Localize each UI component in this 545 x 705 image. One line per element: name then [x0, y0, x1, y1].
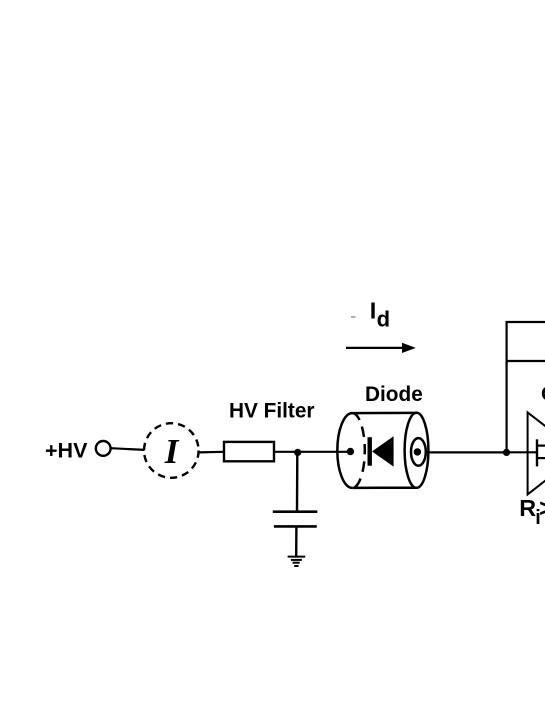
node junction filter/capacitor	[294, 449, 301, 456]
label Id	[370, 297, 390, 331]
svg-text:C: C	[541, 382, 545, 405]
svg-text:I: I	[164, 432, 180, 471]
svg-text:I: I	[370, 297, 377, 323]
terminal +HV input connector	[96, 441, 111, 456]
capacitor C (filter)	[273, 512, 318, 527]
op-amp U1 charge amplifier (partial)	[528, 412, 545, 494]
scan speck	[351, 316, 356, 318]
wire resistor to diode	[274, 451, 350, 453]
cathode connector dot	[414, 448, 421, 455]
label Ri	[519, 494, 545, 529]
wire terminal to meter	[111, 448, 145, 450]
wire diode to node A	[426, 451, 507, 453]
wire node A up to feedback network	[506, 322, 508, 453]
FET drain stub	[538, 445, 545, 447]
wire node A to FET gate	[507, 451, 537, 453]
ground	[288, 557, 306, 566]
wire capacitor to ground	[295, 526, 298, 556]
wire junction down to capacitor	[296, 452, 299, 511]
svg-text:R: R	[519, 495, 536, 521]
wire meter to resistor	[199, 451, 224, 454]
svg-text:d: d	[377, 306, 390, 331]
svg-text:>: >	[539, 494, 545, 522]
diode symbol D1	[368, 436, 394, 466]
node A diode/amplifier junction	[503, 449, 510, 456]
FET source stub	[538, 457, 545, 459]
current direction arrow	[346, 343, 416, 353]
current meter I (dashed circle)	[144, 423, 199, 478]
FET gate bar	[536, 439, 538, 466]
resistor R (HV filter)	[224, 442, 274, 461]
feedback wire lower	[506, 360, 545, 362]
anode node dot	[347, 448, 354, 455]
feedback wire top	[506, 321, 545, 323]
svg-text:Diode: Diode	[365, 383, 423, 406]
diode tube envelope (cylinder)	[337, 413, 428, 488]
svg-text:+HV: +HV	[45, 439, 88, 463]
svg-text:HV Filter: HV Filter	[229, 400, 315, 423]
